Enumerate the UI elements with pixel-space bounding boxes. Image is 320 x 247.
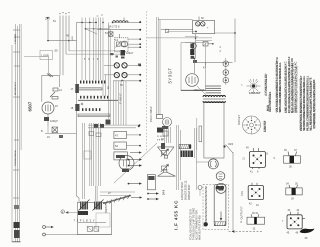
terminal circle 2 <box>43 233 46 236</box>
tuned circuit 2 <box>201 22 205 26</box>
svg-text:12SQ7: 12SQ7 <box>50 120 58 123</box>
antenna arrow <box>46 17 49 20</box>
tuned circuit 1 <box>196 22 200 26</box>
terminal dot <box>139 46 141 48</box>
terminal circle 1 <box>43 226 46 229</box>
terminal dot <box>139 145 141 147</box>
component cluster under dashes <box>157 115 163 119</box>
junction <box>223 145 225 147</box>
dark contact box <box>78 211 88 215</box>
strip end tick <box>12 241 21 243</box>
wire <box>104 74 114 76</box>
center verticals <box>177 125 181 190</box>
svg-text:12SK7GT: 12SK7GT <box>264 121 267 132</box>
svg-text:S W BAND: S W BAND <box>14 33 17 44</box>
wire <box>24 55 49 57</box>
down arrow inside <box>220 212 222 219</box>
cap cluster <box>161 143 165 149</box>
wire <box>11 45 13 242</box>
parts layout: resistor R2 strip <box>286 183 302 201</box>
coil form <box>214 184 226 225</box>
speaker 2 <box>158 170 176 177</box>
oscillator coil T2 <box>113 21 129 23</box>
tube circle C2 <box>216 172 225 181</box>
node tick <box>14 36 20 38</box>
phono jack cluster left mid <box>52 127 58 133</box>
wire <box>127 74 140 76</box>
wire y80.8 <box>113 80 140 82</box>
terminal dot <box>139 38 141 40</box>
output transformer dark block <box>181 151 194 158</box>
svg-text:OPERATING.ON.117.VOLT.60.CYCLE: OPERATING.ON.117.VOLT.60.CYCLE.AC <box>296 66 299 113</box>
dark handwritten swoosh bottom right <box>300 229 315 234</box>
right bus lower <box>232 152 234 232</box>
label box top-left <box>40 51 53 60</box>
terminal dot <box>139 64 141 66</box>
svg-text:12SQ7GT.50L6: 12SQ7GT.50L6 <box>180 182 184 200</box>
mark <box>138 64 141 67</box>
dark electrode marks <box>121 50 126 56</box>
svg-text:56 2 T2 6: 56 2 T2 6 <box>109 25 120 29</box>
hatched boxes <box>87 227 92 232</box>
node junction <box>47 40 49 42</box>
cable <box>103 196 131 204</box>
svg-text:OUTPUT IF: OUTPUT IF <box>241 206 244 220</box>
switch diagonal <box>86 29 98 34</box>
wire coil top stub <box>123 18 125 22</box>
resistor <box>203 42 208 47</box>
right vertical bus from antenna area <box>76 22 78 196</box>
diagonal lead <box>226 145 234 154</box>
bus y127.8 <box>88 127 136 129</box>
svg-text:50L6: 50L6 <box>267 105 270 111</box>
svg-text:50: 50 <box>55 49 59 53</box>
narrow resistor left of can <box>199 126 202 142</box>
svg-text:5Y3GT: 5Y3GT <box>168 67 173 83</box>
svg-text:TUNING RANGE: TUNING RANGE <box>14 149 17 166</box>
hatched rod <box>205 186 207 223</box>
terminal dot <box>138 125 140 127</box>
pot 2 dark <box>94 202 102 210</box>
speaker 1 <box>158 147 175 158</box>
node tick <box>14 139 19 141</box>
cap stub <box>205 62 207 65</box>
circled 2 label <box>61 210 65 214</box>
dashed IF can box <box>203 184 229 229</box>
left lead <box>196 118 198 150</box>
comb row 2 <box>80 96 108 99</box>
comb row 4 dark <box>263 56 316 132</box>
svg-text:24 6: 24 6 <box>162 189 166 195</box>
bus y54.1 <box>66 53 122 55</box>
lead <box>126 134 140 136</box>
wire diagonal <box>197 86 206 95</box>
converter tube V2 cluster <box>122 41 128 47</box>
svg-text:LOOP: LOOP <box>42 54 49 58</box>
left margin strip (dial scale) <box>12 24 21 242</box>
bus y29.4 right <box>161 28 193 30</box>
verticals right of speaker <box>195 128 197 190</box>
hatched band bottom <box>214 222 226 226</box>
wire <box>19 24 21 242</box>
pot arrows <box>79 200 90 211</box>
lead w dot <box>208 43 213 45</box>
wire <box>48 56 50 75</box>
tube socket sun diagram S1 <box>241 79 261 95</box>
wire <box>15 24 17 242</box>
svg-text:5 6 7 8: 5 6 7 8 <box>84 59 99 61</box>
svg-text:+: + <box>207 26 209 30</box>
tube socket circle S2 <box>238 115 261 134</box>
small marks <box>111 53 114 55</box>
svg-text:BROADCAST: BROADCAST <box>14 81 17 95</box>
terminal dot <box>139 134 141 136</box>
resistor R on bus <box>75 84 79 93</box>
long verticals down from switch <box>83 123 101 199</box>
right bus vertical <box>234 19 236 63</box>
coil hatch <box>113 22 129 24</box>
wire stub <box>118 34 120 38</box>
grid cap cluster <box>50 88 58 99</box>
converter tube V4 cluster <box>191 43 197 49</box>
bus y28.8 <box>86 28 111 30</box>
svg-text:7 3 F 1 E 2 Y: 7 3 F 1 E 2 Y <box>74 219 95 223</box>
svg-text:12SA7GT: 12SA7GT <box>249 91 261 95</box>
node junction <box>68 40 70 42</box>
left leads of IF box <box>195 34 197 58</box>
rectifier tube V3 <box>186 74 199 87</box>
dashed pointer line bottom <box>229 231 263 233</box>
wire left from C1 <box>196 161 208 163</box>
resistor R on bus <box>75 104 79 111</box>
phono box with X <box>109 32 114 37</box>
parts layout: resistor R1 strip <box>274 149 301 169</box>
mid column verticals <box>82 18 110 120</box>
node tick <box>13 169 19 171</box>
dark blob strip bottom <box>14 222 20 228</box>
terminal dot <box>139 29 141 31</box>
parts layout: square socket SQ2 <box>241 183 264 207</box>
dark blob strip bottom <box>14 230 20 238</box>
svg-text:2ND IF 455KC: 2ND IF 455KC <box>150 106 153 122</box>
dark marks in box3 <box>116 155 125 158</box>
wire corner into volume box <box>77 196 80 202</box>
cap blobs <box>94 124 98 128</box>
node tick <box>13 197 19 199</box>
arrow terminals center <box>129 160 140 184</box>
volume control box <box>78 202 112 234</box>
bus y37.9 <box>147 37 212 39</box>
stub on top <box>198 17 200 21</box>
pot 1 dark <box>80 202 88 210</box>
capacitor below V1 <box>44 117 49 121</box>
node tick <box>14 65 20 67</box>
wire y29.4 <box>97 28 140 30</box>
tube circle C3 <box>216 183 226 193</box>
node tick <box>13 51 20 53</box>
power transformer winding band <box>203 96 225 103</box>
dashed shield line <box>145 11 147 152</box>
wire to terminal <box>128 22 140 24</box>
transformer top hatched rows <box>206 86 222 93</box>
bus y50.9 <box>69 50 122 52</box>
pilot lamp circles <box>225 58 227 85</box>
wire column below IF pairs <box>114 81 127 125</box>
pin stubs <box>253 148 255 152</box>
wire <box>127 64 140 66</box>
top bus to IF box <box>158 19 193 21</box>
inner panel <box>96 213 110 227</box>
svg-text:35Z5GT.6507: 35Z5GT.6507 <box>187 184 191 200</box>
svg-text:OZ4: OZ4 <box>228 142 234 146</box>
svg-text:C.T.VOLTAGE 117: C.T.VOLTAGE 117 <box>265 74 268 95</box>
bus y31.5 <box>167 31 196 33</box>
dense block left of speaker top <box>165 127 171 143</box>
component box row 1 <box>114 131 127 138</box>
output tube V5 <box>119 156 134 171</box>
trimmer cluster 1 <box>161 149 169 157</box>
IF transformer box top right <box>193 20 215 33</box>
wafer bar 3 <box>78 114 110 117</box>
tube V1 12SQ7 <box>42 102 54 114</box>
wafer bar 1 <box>78 88 102 90</box>
top bus y22.4 <box>77 21 98 23</box>
IF transformer pair 2 <box>114 73 127 78</box>
comb row 1 <box>80 81 105 84</box>
wire <box>104 64 114 66</box>
power transformer can <box>204 102 224 158</box>
component box row 3 <box>114 152 128 160</box>
tuning gang box <box>115 38 129 52</box>
small tube circle <box>163 118 172 127</box>
terminal dot <box>139 21 141 23</box>
rectifier enclosure box <box>181 43 206 91</box>
svg-text:MAX OUTPUT AT 455: MAX OUTPUT AT 455 <box>199 215 202 240</box>
bus y125.1 <box>88 124 139 126</box>
dark mark <box>121 57 125 59</box>
cluster caps left of speaker <box>162 126 168 129</box>
svg-text:6507: 6507 <box>27 101 32 111</box>
svg-text:WITH.1000.OHM.PER.VOLT.METER.A: WITH.1000.OHM.PER.VOLT.METER.ALL <box>279 65 282 112</box>
diagonal dial line <box>114 143 157 183</box>
node tick <box>13 29 20 31</box>
junction dots <box>81 22 113 30</box>
small box <box>165 29 168 32</box>
wire <box>48 40 77 42</box>
parts layout: square socket SQ1 <box>243 147 269 174</box>
svg-text:SOCKET: SOCKET <box>238 115 241 125</box>
tube circle C1 <box>208 159 218 169</box>
heater bus <box>195 61 233 63</box>
loop antenna L1 <box>42 74 60 102</box>
two dark circles top <box>216 186 220 190</box>
tube top lead <box>194 58 196 74</box>
verticals mid-right <box>157 17 160 115</box>
terminal dot <box>139 80 141 82</box>
small box mid left <box>84 151 91 159</box>
svg-text:13 6: 13 6 <box>241 191 244 196</box>
choke hatched bar <box>179 144 191 148</box>
node circle <box>81 103 83 105</box>
wafer bar 2 <box>78 99 118 101</box>
svg-text:I.F 455 KC: I.F 455 KC <box>174 200 179 230</box>
arrow mark <box>121 80 124 82</box>
capacitor C49 <box>71 36 73 40</box>
wire pairs into box <box>95 186 97 201</box>
node <box>14 205 19 209</box>
svg-text:OTHERWISE.NOTED.IN.OHMS.AND.MF: OTHERWISE.NOTED.IN.OHMS.AND.MF <box>314 81 317 128</box>
four top vertical wires <box>60 16 69 76</box>
IF transformer pair 1 <box>114 63 127 68</box>
parts layout: resistor R3 strip <box>240 212 265 231</box>
lead <box>126 145 140 147</box>
trimmer cluster 2 <box>161 165 169 172</box>
arrows right of cable <box>148 194 156 200</box>
cable bundle diagonal <box>100 191 135 193</box>
terminal circle <box>198 186 202 190</box>
arrow terminal <box>130 152 139 154</box>
component box row 2 <box>114 142 127 149</box>
svg-text:30 31: 30 31 <box>252 212 259 215</box>
wire <box>16 26 18 242</box>
osc coil box bottom <box>147 175 155 190</box>
svg-text:12SA7: 12SA7 <box>126 52 134 55</box>
dark dot bottom of rod <box>204 222 208 226</box>
wire <box>20 24 22 150</box>
dark marks below tube <box>122 169 129 173</box>
caps cluster <box>106 120 111 125</box>
wire <box>47 114 49 126</box>
parts layout: square socket SQ3 <box>282 209 305 235</box>
wire antenna lead <box>47 20 49 41</box>
wire box to bus <box>215 32 236 34</box>
wires to terminals <box>128 39 141 47</box>
terminal dot <box>139 74 141 76</box>
node tick <box>13 96 20 98</box>
terminal dot <box>139 43 141 45</box>
comb row 3 <box>82 108 100 111</box>
svg-text:50L6GT.35Z5.12: 50L6GT.35Z5.12 <box>184 180 188 200</box>
rotated note text columns right side <box>264 61 317 132</box>
